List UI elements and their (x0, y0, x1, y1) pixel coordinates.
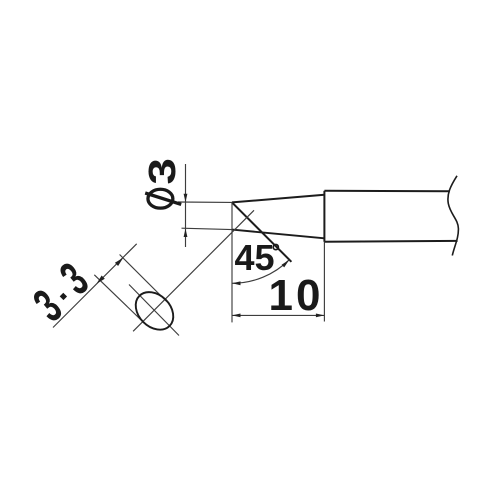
svg-text:10: 10 (269, 271, 324, 320)
svg-text:3: 3 (142, 158, 184, 185)
